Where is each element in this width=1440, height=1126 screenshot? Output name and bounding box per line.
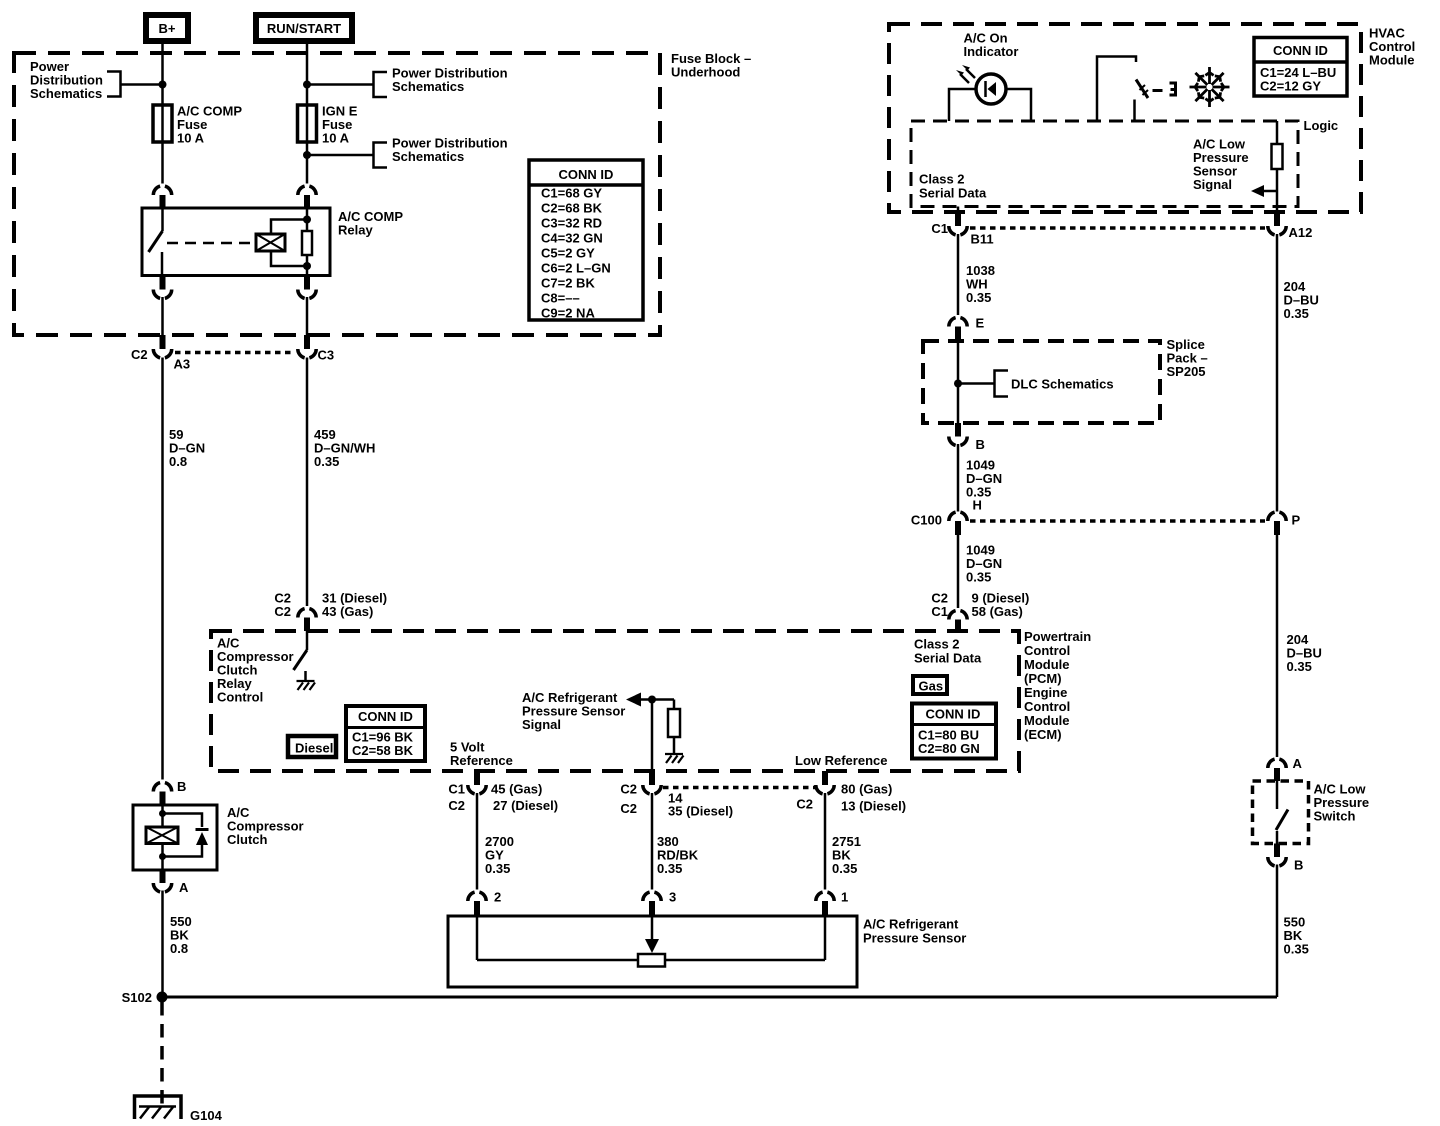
- svg-text:Switch: Switch: [1314, 809, 1356, 824]
- label Power Distribution Schematics (lower right): [392, 136, 508, 165]
- svg-text:Signal: Signal: [522, 717, 561, 732]
- fuse IGN E 10A: [298, 104, 358, 146]
- wire ground bus S102 to A/C low pressure switch: [162, 996, 1277, 999]
- label Power Distribution Schematics (upper right): [392, 66, 508, 95]
- wire coil top link: [271, 220, 307, 235]
- switch A/C compressor clutch relay control driver: [294, 631, 308, 681]
- svg-text:C100: C100: [911, 513, 942, 528]
- dotted connector link C2 to C3: [175, 351, 295, 355]
- node clutch bottom junction: [159, 853, 166, 860]
- label Splice Pack - SP205: [1167, 337, 1208, 379]
- A/C compressor clutch box: [133, 805, 217, 870]
- svg-text:C2=68 BK: C2=68 BK: [541, 201, 603, 216]
- connector C3 at fuse block exit: [298, 335, 334, 363]
- connector C1/B11 out of HVAC: [931, 212, 993, 247]
- A/C refrigerant pressure sensor box: [448, 916, 857, 987]
- svg-text:0.35: 0.35: [966, 570, 991, 585]
- svg-text:0.35: 0.35: [485, 861, 510, 876]
- svg-text:C1: C1: [448, 782, 465, 797]
- svg-text:Class 2: Class 2: [919, 172, 965, 187]
- dotted connector link C1 to A12: [970, 226, 1265, 230]
- snowflake A/C function icon: [1190, 67, 1230, 107]
- node sensor signal junction: [648, 696, 656, 704]
- wire 2700 GY 0.35: [476, 793, 479, 890]
- connector B out of splice pack: [949, 423, 985, 452]
- svg-text:DLC Schematics: DLC Schematics: [1011, 377, 1114, 392]
- label wire 550 BK 0.8: [170, 914, 192, 956]
- svg-text:CONN ID: CONN ID: [559, 167, 614, 182]
- connector A12 out of HVAC: [1268, 212, 1313, 240]
- svg-text:Logic: Logic: [1304, 118, 1339, 133]
- svg-text:C2: C2: [620, 801, 637, 816]
- CONN ID table (PCM diesel): [346, 706, 425, 761]
- wire splice to DLC tap: [958, 382, 995, 385]
- svg-text:10 A: 10 A: [322, 131, 350, 146]
- node junction IGN E lower tap: [303, 151, 311, 159]
- svg-text:Engine: Engine: [1024, 685, 1067, 700]
- label wire 1049 D-GN 0.35 (upper): [966, 458, 1002, 500]
- label wire 380 RD/BK 0.35: [657, 834, 699, 876]
- label A/C Low Pressure Sensor Signal: [1193, 137, 1249, 193]
- HVAC control module dashed box: [889, 24, 1361, 212]
- connector fuse to relay (left pin 86 side): [153, 186, 171, 208]
- svg-text:27 (Diesel): 27 (Diesel): [493, 798, 558, 813]
- connector C100 H: [911, 498, 982, 536]
- splice S102: [122, 990, 168, 1005]
- svg-text:0.35: 0.35: [966, 290, 991, 305]
- label wire 1038 WH 0.35: [966, 263, 995, 305]
- wire 1049 D-GN 0.35 (upper): [957, 444, 960, 512]
- connector C2/A3 at fuse block exit: [131, 335, 190, 372]
- CONN ID table (fuse block): [529, 160, 643, 321]
- Diesel tag box: [288, 736, 336, 757]
- svg-text:Clutch: Clutch: [227, 832, 268, 847]
- sensor wiper arrow: [645, 916, 659, 953]
- svg-text:RUN/START: RUN/START: [267, 21, 341, 36]
- svg-text:B11: B11: [971, 232, 994, 247]
- logic dashed box: [911, 121, 1298, 207]
- CONN ID table (PCM gas): [912, 704, 996, 759]
- svg-text:(PCM): (PCM): [1024, 671, 1062, 686]
- wire 380 RD/BK 0.35: [651, 793, 654, 890]
- svg-text:SP205: SP205: [1167, 364, 1206, 379]
- sensor internal bus: [477, 959, 638, 962]
- svg-text:0.35: 0.35: [1284, 942, 1309, 957]
- connector A into low pressure switch: [1268, 756, 1303, 781]
- label A/C Compressor Clutch: [227, 805, 304, 847]
- svg-text:C1=68 GY: C1=68 GY: [541, 186, 602, 201]
- svg-text:C5=2 GY: C5=2 GY: [541, 246, 595, 261]
- svg-text:Control: Control: [217, 690, 263, 705]
- ground G104: [135, 1096, 223, 1123]
- svg-text:80 (Gas): 80 (Gas): [841, 782, 892, 797]
- svg-text:C2=80 GN: C2=80 GN: [918, 741, 980, 756]
- svg-text:Module: Module: [1024, 657, 1070, 672]
- wire indicator lamp left leg: [949, 89, 976, 121]
- svg-text:C4=32 GN: C4=32 GN: [541, 231, 603, 246]
- svg-text:B: B: [976, 437, 985, 452]
- label A/C On Indicator: [964, 31, 1019, 60]
- wire class 2 serial data inside HVAC: [957, 207, 960, 213]
- svg-text:0.35: 0.35: [1287, 659, 1312, 674]
- sensor element resistor: [638, 954, 665, 967]
- label wire 2700 GY 0.35: [485, 834, 514, 876]
- label A/C Low Pressure Switch: [1314, 782, 1370, 824]
- label HVAC Control Module: [1369, 26, 1415, 68]
- svg-text:C2: C2: [620, 782, 637, 797]
- svg-text:2: 2: [494, 890, 501, 905]
- svg-text:Signal: Signal: [1193, 177, 1232, 192]
- power feed RUN/START box: [256, 15, 352, 41]
- svg-text:(ECM): (ECM): [1024, 727, 1062, 742]
- label Class 2 Serial Data (HVAC): [919, 172, 987, 201]
- indicator lamp A/C On: [976, 74, 1006, 104]
- svg-text:CONN ID: CONN ID: [358, 709, 413, 724]
- clutch coil feed wire: [161, 805, 164, 870]
- node coil top junction: [303, 216, 311, 224]
- svg-text:C2=12 GY: C2=12 GY: [1260, 79, 1321, 94]
- node clutch top junction: [159, 810, 166, 817]
- wire RUN/START down to IGN E fuse and relay: [306, 44, 309, 184]
- clutch coil (crossed box): [146, 827, 178, 844]
- label wire 204 D-BU 0.35 (lower): [1287, 632, 1322, 674]
- svg-text:A3: A3: [174, 357, 191, 372]
- power feed B+ box: [146, 15, 188, 41]
- wire tap to power distribution schematics (upper right): [307, 83, 374, 86]
- wire tap to power distribution schematics (lower right): [307, 154, 374, 157]
- svg-text:E: E: [976, 316, 985, 331]
- fuse block - underhood dashed box: [14, 53, 660, 335]
- svg-text:Indicator: Indicator: [964, 44, 1019, 59]
- svg-text:Schematics: Schematics: [30, 86, 102, 101]
- label wire 59 D-GN 0.8: [169, 427, 205, 469]
- wire indicator lamp right leg: [1006, 89, 1031, 121]
- wire 1049 D-GN 0.35 (lower): [957, 535, 960, 608]
- ground (driver low side): [297, 681, 316, 690]
- arrow A/C refrigerant pressure sensor signal: [626, 693, 674, 707]
- svg-text:A/C Refrigerant: A/C Refrigerant: [863, 917, 959, 932]
- sensor internal low ref leg: [824, 916, 827, 960]
- wire 550 BK 0.8: [161, 891, 164, 998]
- node coil bottom junction: [303, 262, 311, 270]
- svg-text:3: 3: [669, 890, 676, 905]
- svg-text:Module: Module: [1369, 53, 1415, 68]
- Gas tag box: [913, 676, 947, 694]
- switch A/C request: [1097, 57, 1148, 122]
- svg-text:Underhood: Underhood: [671, 65, 740, 80]
- dotted connector link sensor signal to low ref: [663, 786, 815, 790]
- relay switch contact and blade: [149, 208, 163, 276]
- connector C1/C2 45(Gas) 27(Diesel) 5V ref out of PCM: [448, 771, 558, 813]
- bracket power distribution schematics left: [107, 72, 121, 97]
- svg-text:S102: S102: [122, 990, 152, 1005]
- switch mechanical link dash: [1153, 89, 1163, 92]
- svg-text:C2: C2: [796, 797, 813, 812]
- label wire 2751 BK 0.35: [832, 834, 861, 876]
- svg-text:0.35: 0.35: [832, 861, 857, 876]
- svg-text:Diesel: Diesel: [295, 741, 333, 756]
- svg-text:C6=2 L–GN: C6=2 L–GN: [541, 261, 611, 276]
- dotted connector link C100 to P: [970, 519, 1265, 523]
- sensor internal 5V leg: [476, 916, 479, 960]
- svg-text:0.35: 0.35: [314, 454, 339, 469]
- arrow A/C low pressure sensor signal input: [1251, 185, 1277, 197]
- svg-text:A12: A12: [1289, 225, 1313, 240]
- relay internal resistor: [302, 208, 312, 276]
- node junction B+ / power distribution tap: [159, 81, 167, 89]
- splice pack dashed box: [923, 341, 1160, 423]
- CONN ID table (HVAC): [1254, 38, 1347, 97]
- connector C2/C1 9(Diesel) 58(Gas) class 2 into PCM: [931, 591, 1029, 633]
- svg-text:Relay: Relay: [338, 223, 373, 238]
- svg-text:Serial Data: Serial Data: [914, 651, 982, 666]
- label wire 459 D-GN/WH 0.35: [314, 427, 375, 469]
- switch mechanical link symbol: [1170, 82, 1176, 97]
- bracket power distribution schematics lower right: [374, 143, 388, 168]
- svg-text:B: B: [177, 779, 186, 794]
- svg-text:B: B: [1294, 858, 1303, 873]
- connector pin 3: [643, 890, 676, 916]
- label 5 Volt Reference: [450, 740, 513, 769]
- bracket power distribution schematics upper right: [374, 72, 388, 97]
- svg-text:C1: C1: [931, 221, 948, 236]
- relay actuating dashed link: [167, 242, 255, 245]
- svg-text:45 (Gas): 45 (Gas): [491, 782, 542, 797]
- svg-text:C2=58 BK: C2=58 BK: [352, 743, 414, 758]
- connector A out of clutch: [153, 870, 189, 895]
- label Power Distribution Schematics (left): [30, 59, 103, 101]
- svg-text:Control: Control: [1024, 643, 1070, 658]
- svg-text:G104: G104: [190, 1108, 223, 1123]
- wire 459 D-GN/WH 0.35 (right drop): [306, 358, 309, 607]
- svg-text:A: A: [179, 880, 189, 895]
- svg-text:C2: C2: [274, 604, 291, 619]
- connector E into splice pack: [949, 316, 985, 342]
- svg-text:Module: Module: [1024, 713, 1070, 728]
- svg-text:B+: B+: [159, 21, 176, 36]
- svg-text:Control: Control: [1024, 699, 1070, 714]
- svg-text:Class 2: Class 2: [914, 637, 960, 652]
- svg-text:Low Reference: Low Reference: [795, 753, 887, 768]
- label wire 550 BK 0.35: [1284, 915, 1309, 957]
- connector fuse to relay (right coil side): [298, 186, 316, 208]
- svg-text:P: P: [1292, 513, 1301, 528]
- node splice junction: [954, 380, 962, 388]
- svg-text:0.35: 0.35: [657, 861, 682, 876]
- connector C2/C2 31(Diesel) 43(Gas) into PCM: [274, 591, 387, 632]
- label Fuse Block - Underhood: [671, 51, 751, 80]
- svg-text:Gas: Gas: [919, 679, 944, 694]
- svg-text:0.8: 0.8: [170, 941, 188, 956]
- wire relay left output to block edge: [161, 297, 164, 335]
- svg-text:Serial Data: Serial Data: [919, 186, 987, 201]
- svg-text:H: H: [973, 498, 982, 513]
- wire through splice pack: [957, 341, 960, 423]
- resistor HVAC low pressure sense pull-up: [1272, 121, 1283, 212]
- connector C2/C2 14 35(Diesel) sensor signal out of PCM: [620, 771, 733, 819]
- svg-text:C9=2 NA: C9=2 NA: [541, 306, 595, 321]
- wire 550 BK 0.35: [1276, 865, 1279, 998]
- wire 2751 BK 0.35: [824, 793, 827, 890]
- label Powertrain Control Module (PCM) Engine Control Module (ECM): [1024, 629, 1091, 742]
- indicator lamp emission arrows: [956, 65, 975, 83]
- svg-text:C7=2 BK: C7=2 BK: [541, 276, 595, 291]
- PCM/ECM dashed box: [211, 631, 1019, 771]
- svg-text:C3: C3: [318, 348, 335, 363]
- label A/C Refrigerant Pressure Sensor: [863, 917, 966, 946]
- relay K: A/C COMP Relay box: [142, 208, 330, 276]
- svg-text:C2: C2: [448, 798, 465, 813]
- svg-text:13 (Diesel): 13 (Diesel): [841, 799, 906, 814]
- wire 204 D-BU 0.35 (upper): [1276, 234, 1279, 512]
- svg-text:C2: C2: [131, 347, 148, 362]
- ground (pull-up resistor): [665, 754, 684, 763]
- svg-text:1: 1: [841, 890, 848, 905]
- wire 59 D-GN 0.8 (left drop): [161, 358, 164, 780]
- svg-text:A: A: [1293, 756, 1303, 771]
- wire 1038 WH 0.35: [957, 234, 960, 315]
- fuse A/C COMP 10A: [153, 104, 242, 146]
- wire S102 to G104 (dashed): [160, 1002, 164, 1106]
- label A/C Compressor Clutch Relay Control: [217, 636, 294, 705]
- connector B into clutch: [153, 779, 186, 805]
- label Class 2 Serial Data (PCM): [914, 637, 982, 666]
- connector relay output left: [153, 276, 171, 299]
- connector C2 80(Gas) 13(Diesel) low ref out of PCM: [796, 771, 906, 814]
- label wire 204 D-BU 0.35 (upper): [1284, 279, 1319, 321]
- node junction IGN E upper tap: [303, 81, 311, 89]
- wire tap to power distribution schematics (left): [120, 83, 163, 86]
- svg-text:0.8: 0.8: [169, 454, 187, 469]
- svg-text:Schematics: Schematics: [392, 79, 464, 94]
- connector B out of low pressure switch: [1268, 844, 1304, 873]
- wire 204 D-BU 0.35 (lower): [1276, 535, 1279, 757]
- connector pin 1: [816, 890, 848, 916]
- svg-text:35 (Diesel): 35 (Diesel): [668, 804, 733, 819]
- svg-text:Schematics: Schematics: [392, 149, 464, 164]
- connector P: [1268, 512, 1301, 535]
- wire sensor signal down to connector: [651, 700, 654, 772]
- svg-text:Pressure Sensor: Pressure Sensor: [863, 931, 966, 946]
- label A/C Refrigerant Pressure Sensor Signal: [522, 690, 625, 732]
- wire coil bottom link: [271, 251, 307, 266]
- svg-text:C8=––: C8=––: [541, 291, 580, 306]
- A/C low pressure switch dashed box: [1253, 781, 1309, 844]
- wire relay right output to block edge: [306, 297, 309, 335]
- switch A/C low pressure contacts: [1276, 781, 1288, 844]
- svg-text:0.35: 0.35: [1284, 306, 1309, 321]
- label wire 1049 D-GN 0.35 (lower): [966, 543, 1002, 585]
- connector pin 2: [468, 890, 501, 916]
- svg-text:10 A: 10 A: [177, 131, 205, 146]
- svg-text:CONN ID: CONN ID: [926, 707, 981, 722]
- svg-text:Reference: Reference: [450, 753, 513, 768]
- resistor PCM pull-up on sensor signal: [668, 700, 680, 755]
- clutch suppression diode branch: [163, 814, 209, 857]
- svg-text:C1: C1: [931, 604, 948, 619]
- relay coil (crossed box): [256, 234, 285, 251]
- label A/C COMP Relay: [338, 209, 403, 238]
- svg-text:43 (Gas): 43 (Gas): [322, 604, 373, 619]
- svg-text:C3=32 RD: C3=32 RD: [541, 216, 602, 231]
- connector relay output right: [298, 276, 316, 299]
- svg-text:58 (Gas): 58 (Gas): [972, 604, 1023, 619]
- bracket DLC schematics: [995, 371, 1009, 397]
- wire B+ down to A/C COMP fuse and relay: [161, 44, 164, 184]
- svg-text:CONN ID: CONN ID: [1273, 43, 1328, 58]
- svg-text:Powertrain: Powertrain: [1024, 629, 1091, 644]
